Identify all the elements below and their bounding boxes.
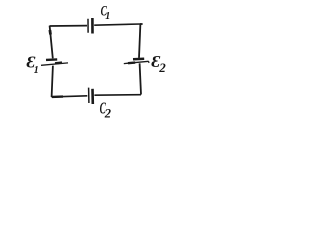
wire top-left segment [50,25,87,27]
emf source E1 thick dash on long plate [55,61,62,64]
capacitor C2 left plate [88,88,90,103]
label E2 [151,52,166,75]
label E1 [27,53,39,76]
svg-text:2: 2 [158,60,166,75]
wire left lower segment [52,66,53,97]
emf source E2 short thick plate [133,58,144,61]
node top-right corner [140,23,143,25]
wire left upper segment [50,26,53,59]
emf source E1 short thick plate [46,58,57,61]
capacitor C1 right plate [91,18,94,34]
capacitor C2 right plate [91,89,94,104]
label C1 [101,2,111,22]
emf source E1 long thin plate [41,63,68,65]
wire bottom-right segment [94,94,141,97]
wire right lower segment [140,63,141,94]
wire top-right segment [94,24,140,25]
svg-text:1: 1 [34,65,39,76]
wire left upper thick blob [49,30,52,35]
wire right upper segment [139,24,140,58]
svg-text:2: 2 [104,106,111,120]
svg-text:1: 1 [105,11,110,22]
node bottom-left corner thick stroke [52,95,63,98]
wire bottom-left segment [52,96,88,97]
capacitor C1 left plate [87,19,89,33]
emf source E2 thick dash on long plate [128,61,135,64]
label C2 [100,99,111,121]
emf source E2 plate end hook [148,61,151,63]
emf source E2 long thin plate [124,61,149,63]
